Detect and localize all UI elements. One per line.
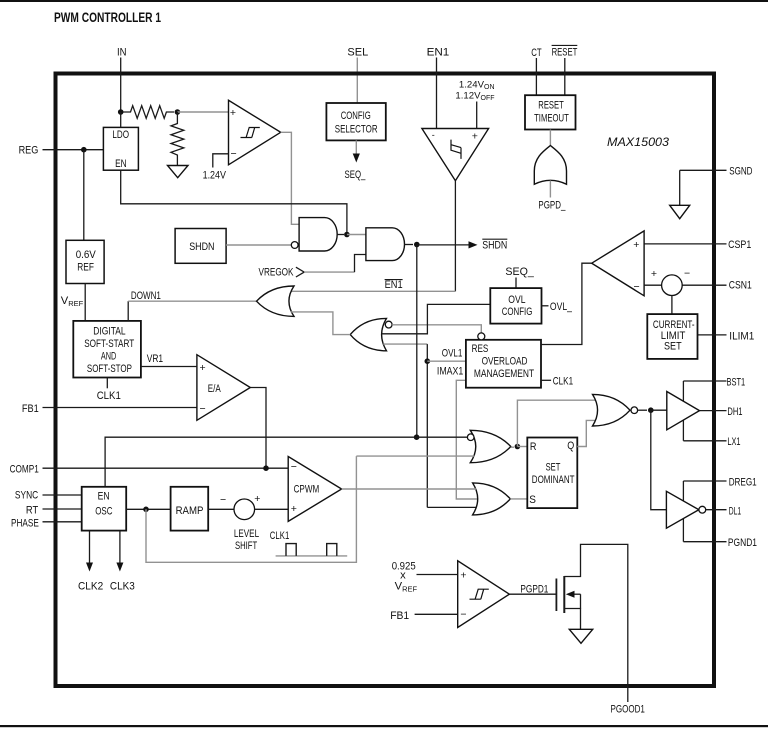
svg-text:IN: IN [117, 47, 127, 59]
wire 1.24V to comparator - input [213, 154, 229, 168]
svg-text:DH1: DH1 [727, 406, 742, 418]
RAMP block [171, 487, 209, 531]
wire EN1 junction to OSC EN [105, 437, 417, 487]
transistor Q1 (NMOS) [555, 579, 557, 612]
svg-text:OVL1: OVL1 [442, 347, 463, 359]
chip boundary box [56, 74, 715, 687]
bubble RES on overload management [478, 333, 485, 340]
svg-text:DOWN1: DOWN1 [131, 290, 161, 302]
svg-text:CLK2: CLK2 [78, 581, 103, 593]
0.6V REF block [66, 240, 104, 283]
svg-text:RESET: RESET [552, 46, 578, 58]
pin CSN1 [682, 284, 726, 286]
pin DH1 [700, 410, 727, 412]
node R junction [511, 446, 514, 448]
wire S gate output to latch S [510, 498, 527, 500]
svg-text:FB1: FB1 [390, 610, 409, 622]
svg-text:-: - [432, 130, 435, 140]
bubble AND1 lower input [291, 242, 298, 249]
node resistor divider junction [175, 109, 181, 115]
arrow NMOS body [572, 593, 581, 595]
wire overload management to current comparator output [541, 263, 592, 344]
level shift summing circle [234, 499, 255, 520]
pin CSP1 [644, 243, 726, 245]
wire IN to LDO [120, 112, 122, 127]
svg-text:−: − [684, 268, 690, 280]
wire AND1 out to AND2 [347, 234, 366, 236]
svg-text:SOFT-START: SOFT-START [84, 338, 134, 350]
wire to SHDN-bar output arrow [417, 244, 469, 246]
svg-text:PGOOD1: PGOOD1 [611, 703, 645, 715]
SHDN block [175, 229, 226, 264]
svg-text:+: + [633, 239, 639, 251]
svg-text:PGPD1: PGPD1 [520, 583, 548, 595]
wire R junction to latch R [517, 446, 527, 448]
AND gate A2 [366, 228, 405, 261]
OSC block [82, 487, 127, 531]
svg-text:+: + [460, 569, 466, 581]
comparator U1 (UVLO, schmitt) [229, 100, 281, 165]
summing node circle [662, 275, 683, 296]
svg-text:ILIM1: ILIM1 [729, 330, 754, 342]
page top rule [0, 0, 768, 2]
svg-text:LX1: LX1 [727, 436, 740, 448]
node IN junction [118, 109, 124, 115]
svg-text:SET: SET [664, 340, 682, 352]
wire CLK1 stub under soft-start [106, 378, 108, 389]
svg-text:OVL_: OVL_ [550, 301, 573, 313]
SET DOMINANT latch block [527, 438, 577, 509]
svg-text:MANAGEMENT: MANAGEMENT [474, 368, 535, 380]
wire source to ground [564, 609, 580, 630]
wire OVL1 into overload management [427, 360, 466, 362]
svg-text:0.6V: 0.6V [76, 249, 97, 261]
svg-text:S: S [529, 494, 536, 506]
wire EN1 net vertical [416, 245, 418, 437]
wire to DH driver [651, 409, 667, 411]
wire R junction up to NOR input [517, 400, 595, 446]
svg-text:EN: EN [115, 158, 127, 170]
pin PGND1 [683, 541, 726, 543]
node OSC output junction [143, 507, 149, 513]
svg-text:−: − [634, 281, 640, 293]
wire VR1 to E/A + [141, 366, 197, 368]
wire OR output to RESET TIMEOUT [549, 130, 551, 146]
svg-text:VR1: VR1 [147, 353, 163, 365]
svg-text:1.12VOFF: 1.12VOFF [455, 91, 494, 103]
error amp E/A [197, 355, 250, 421]
wire COMP1 to CPWM inverting input [43, 467, 289, 469]
svg-text:SHDN: SHDN [189, 241, 214, 253]
node DH driver input junction [638, 409, 647, 411]
svg-text:CONFIG: CONFIG [341, 110, 371, 122]
wire CLK1 output of overload management [541, 379, 551, 381]
bubble O2 top input [385, 321, 392, 328]
svg-text:BST1: BST1 [727, 376, 746, 388]
svg-text:+: + [472, 130, 478, 142]
pin DL1 [706, 509, 727, 511]
svg-text:DL1: DL1 [729, 506, 741, 518]
svg-text:LEVEL: LEVEL [234, 528, 259, 540]
svg-text:Q: Q [567, 440, 574, 452]
resistor R1 (IN series) [123, 106, 174, 119]
pin SGND [680, 169, 727, 171]
wire LDO EN from AND1 output [121, 170, 347, 234]
svg-text:1.24VON: 1.24VON [459, 80, 495, 92]
svg-text:SEQ_: SEQ_ [345, 169, 366, 181]
svg-text:CLK1: CLK1 [270, 530, 290, 542]
LDO block [103, 127, 138, 170]
wire drain to PGOOD1 [564, 544, 628, 702]
wire clock to O3 lower input [356, 455, 474, 457]
svg-text:VREF: VREF [395, 581, 418, 594]
svg-text:RESET: RESET [538, 99, 564, 111]
ground divider [168, 166, 189, 178]
wire OVL1 to S gate input [427, 506, 476, 508]
svg-text:CPWM: CPWM [294, 483, 320, 495]
node EN1 to R-gate junction [414, 434, 420, 440]
node OVL1 junction [425, 358, 431, 364]
wire OSC output [126, 508, 170, 510]
wire PGPD1 to MOSFET gate [509, 593, 555, 595]
wire VREF to soft-start [84, 284, 86, 321]
wire PGPD_ input [549, 181, 551, 198]
wire threshold to + input [476, 102, 478, 129]
svg-text:CLK3: CLK3 [110, 581, 135, 593]
comparator U4 (PGOOD, schmitt) [458, 561, 510, 628]
waveform CLK1 [276, 555, 348, 557]
wire EN1-bar to OR1 input [291, 290, 455, 292]
wire EN1 comparator output [454, 181, 456, 292]
svg-text:−: − [200, 403, 206, 415]
svg-text:VREF: VREF [61, 295, 84, 308]
OVL CONFIG block [490, 288, 541, 324]
comparator U2 (EN1, schmitt, points down) [422, 129, 489, 181]
page bottom rule [0, 725, 768, 727]
wire CSN summing to comparator - [644, 284, 662, 286]
wire O2 output to O1 input [291, 312, 350, 335]
svg-text:−: − [220, 494, 226, 506]
arrow CONFIG SELECTOR to SEQ_ [355, 140, 357, 154]
svg-text:AND: AND [101, 350, 117, 362]
comparator U3 (current sense, points left) [592, 231, 644, 296]
svg-text:SEQ_: SEQ_ [505, 266, 534, 278]
CURRENT-LIMIT SET block [647, 314, 697, 359]
svg-text:SGND: SGND [729, 166, 752, 178]
pin DREG1 [683, 480, 726, 482]
ground SGND [670, 205, 690, 218]
wire FB1 to PGOOD comparator - [415, 613, 458, 615]
wire DREG1-PGND1 rail [682, 481, 684, 542]
svg-text:TIMEOUT: TIMEOUT [534, 113, 569, 125]
comparator CPWM [288, 457, 341, 522]
CONFIG SELECTOR block [326, 103, 385, 140]
svg-text:CLK1: CLK1 [97, 390, 121, 402]
svg-text:EN1: EN1 [385, 279, 403, 291]
RESET TIMEOUT block [525, 95, 576, 129]
wire SGND to ground [679, 170, 681, 205]
wire RAMP to level shift [208, 508, 234, 510]
bubble O3 top input [467, 434, 474, 441]
svg-text:PHASE: PHASE [11, 517, 39, 529]
svg-text:REG: REG [19, 145, 39, 157]
OVERLOAD MANAGEMENT block [466, 340, 541, 388]
wire level shift to CPWM + [255, 508, 289, 510]
wire RES to O2 bubble [392, 325, 481, 333]
arrow CLK2 [89, 531, 91, 564]
OR gate PGPD (points up) [534, 146, 566, 185]
svg-text:FB1: FB1 [22, 403, 39, 415]
svg-text:OVERLOAD: OVERLOAD [482, 356, 528, 368]
wire IMAX1 into overload management [456, 380, 477, 499]
wire divider to comparator + [177, 111, 228, 113]
svg-text:−: − [291, 461, 297, 473]
svg-text:+: + [230, 107, 236, 119]
svg-text:RES: RES [472, 343, 489, 355]
svg-text:SET: SET [546, 462, 561, 474]
pin BST1 [683, 380, 726, 382]
wire Q to NOR input [577, 420, 595, 446]
node AND1 output [337, 234, 344, 236]
OR gate O3 (R input) [470, 430, 511, 462]
svg-text:1.24V: 1.24V [203, 169, 227, 181]
wire OVL1 vertical [426, 344, 428, 507]
svg-text:SHDN: SHDN [482, 240, 507, 252]
AND gate A1 (with inverted input) [299, 218, 337, 251]
OR gate O2 (points left) [350, 318, 386, 350]
svg-text:−: − [460, 609, 466, 621]
pin LX1 [683, 440, 726, 442]
svg-text:E/A: E/A [208, 383, 222, 395]
DIGITAL SOFT-START AND SOFT-STOP block [73, 321, 141, 378]
svg-text:DREG1: DREG1 [729, 476, 757, 488]
svg-text:CSP1: CSP1 [728, 239, 751, 251]
inverter DL driver [666, 491, 698, 528]
wire CPWM output to S gate [342, 488, 476, 490]
wire OVL1 net to O2 bottom input [383, 343, 427, 345]
svg-text:PGND1: PGND1 [728, 537, 757, 549]
arrow CLK3 [119, 531, 121, 564]
svg-text:REF: REF [77, 262, 94, 274]
svg-text:RAMP: RAMP [176, 505, 204, 517]
svg-text:+: + [254, 493, 260, 505]
wire OVL net to O2 middle input [382, 304, 491, 333]
svg-text:SEL: SEL [347, 47, 368, 59]
svg-text:SYNC: SYNC [15, 490, 38, 502]
OR gate O1 (points left, DOWN1) [257, 286, 295, 316]
bubble NOR output [631, 407, 638, 414]
wire EN1 junction to R gate bubble [417, 436, 468, 438]
wire OVL_ output [542, 305, 549, 307]
svg-text:OSC: OSC [95, 505, 113, 517]
svg-text:DIGITAL: DIGITAL [93, 325, 125, 337]
svg-text:DOMINANT: DOMINANT [532, 474, 575, 486]
svg-text:CT: CT [531, 47, 542, 59]
svg-text:RT: RT [26, 504, 38, 516]
wire SHDN to AND1 bubble [226, 244, 291, 246]
pin ILIM1 [698, 334, 727, 336]
ground MOSFET source [569, 629, 592, 643]
svg-text:SOFT-STOP: SOFT-STOP [87, 363, 132, 375]
node AND2 output junction [405, 244, 414, 246]
resistor R2 (divider to ground) [171, 112, 184, 166]
svg-text:−: − [231, 148, 237, 160]
node COMP1 junction [263, 465, 269, 471]
svg-text:LDO: LDO [112, 129, 129, 141]
bubble DL driver output [699, 506, 706, 513]
svg-text:MAX15003: MAX15003 [607, 135, 669, 149]
wire to DL driver [651, 410, 667, 510]
svg-text:IMAX1: IMAX1 [437, 365, 463, 377]
wire clock feedback path [146, 456, 356, 562]
svg-text:PWM CONTROLLER 1: PWM CONTROLLER 1 [54, 10, 161, 25]
OR gate O4 (S input, 3 inputs) [473, 483, 511, 515]
svg-text:SHIFT: SHIFT [235, 540, 257, 552]
wire comparator U1 output to NAND [281, 132, 299, 224]
svg-text:+: + [651, 268, 657, 280]
svg-text:CONFIG: CONFIG [502, 306, 533, 318]
wire summing to CURRENT-LIMIT SET [671, 296, 673, 315]
svg-text:CSN1: CSN1 [729, 279, 752, 291]
NOR gate O5 [593, 394, 631, 426]
svg-text:OVL: OVL [508, 294, 525, 306]
wire threshold to PGOOD comparator + [417, 574, 458, 576]
svg-text:+: + [200, 362, 206, 374]
svg-text:CLK1: CLK1 [553, 376, 573, 388]
svg-text:PGPD_: PGPD_ [538, 200, 566, 212]
svg-text:EN1: EN1 [427, 47, 450, 59]
svg-text:R: R [530, 441, 537, 453]
node REG junction [81, 147, 87, 153]
svg-text:VREGOK: VREGOK [259, 266, 294, 278]
svg-text:SELECTOR: SELECTOR [335, 123, 378, 135]
wire BST1-LX1 rail [682, 381, 684, 441]
svg-text:+: + [291, 503, 297, 515]
svg-text:EN: EN [98, 491, 110, 503]
svg-text:COMP1: COMP1 [10, 463, 39, 475]
buffer DH driver [667, 392, 700, 430]
wire FB1 to E/A inverting input [43, 407, 197, 409]
wire E/A output to COMP1 node [250, 388, 266, 469]
